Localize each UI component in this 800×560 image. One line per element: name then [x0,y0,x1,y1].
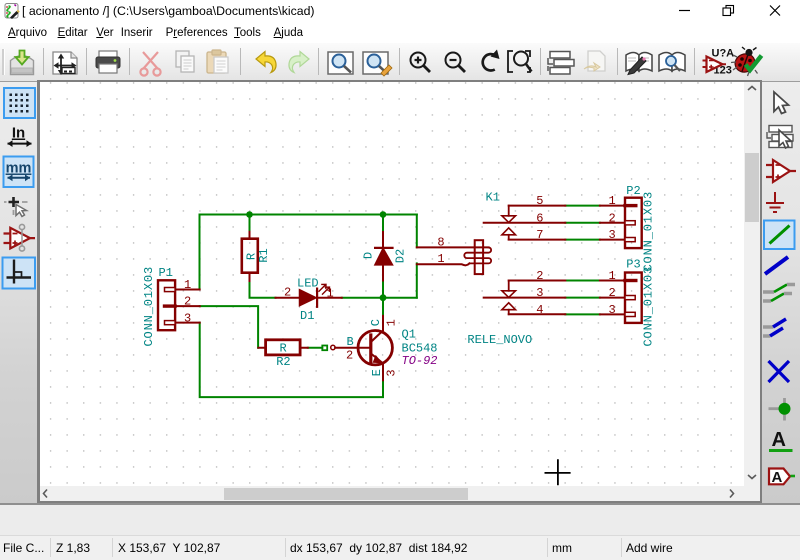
P3 value CONN_01X03 [642,266,656,347]
svg-text:3: 3 [609,228,616,242]
svg-text:R: R [244,253,258,260]
right toolbar [762,82,800,503]
svg-text:TO-92: TO-92 [402,354,438,368]
LED D1 arrows [319,284,330,294]
K1 reference label [486,191,500,205]
P3 reference label [626,258,640,272]
relay K1 pin numbers 8 and 1 [437,235,444,266]
K1 contact group 2: up triangle [502,303,516,315]
frame + canvas [37,80,762,503]
K1 contact group 1: up triangle [502,228,516,240]
svg-text:CONN_01X03: CONN_01X03 [142,266,156,347]
svg-text:P3: P3 [626,258,640,272]
wire top rail [200,214,417,216]
connector P1 body [158,280,175,330]
print icon [96,51,120,73]
svg-text:1: 1 [385,319,399,326]
connector P3 body [625,273,642,323]
menu bar [0,22,800,43]
svg-text:U?A: U?A [712,48,735,60]
svg-text:C: C [369,319,383,326]
wire K1 pin7 to P2 pin3 [565,239,600,241]
undo icon [256,52,276,73]
relay K1 coil winding [464,247,491,263]
place bus tool [765,257,788,274]
K1 contact group 1: pin 6 common line [484,222,566,224]
LED D1 body [300,289,318,307]
svg-text:mm: mm [6,161,32,177]
cut icon (disabled) [140,52,160,76]
P1 reference label [159,266,173,280]
redo icon (disabled) [289,52,309,73]
wire riser to relay pin 1 [416,263,418,297]
Q1 value BC548 [402,341,438,355]
svg-text:2: 2 [609,211,616,225]
P1 pin 3 [165,321,200,325]
P3 pin 3 [600,312,635,316]
library browser icon [659,53,685,72]
wire P1 pin2 to R2 [200,306,258,348]
K1 contact group 1: down triangle [502,216,516,223]
P2 pin 1 [600,205,636,207]
D2 value label [362,252,376,259]
K1 contact group 2: pin 4 line [509,313,566,315]
K1 group 1 pin numbers 5 6 7 [536,194,543,242]
transistor Q1 body [358,331,392,365]
library editor icon [626,53,652,75]
wire K1 pin6 to P2 pin2 [565,222,600,224]
wire K1 pin2 to P3 pin1 [565,280,600,282]
diode D2 body [375,232,393,281]
junction at D2 bottom node [380,294,387,301]
svg-text:3: 3 [184,312,191,326]
svg-text:1: 1 [609,194,616,208]
wire D2 bottom stub [382,281,384,298]
annotate icon [703,48,735,77]
svg-text:5: 5 [536,194,543,208]
svg-text:6: 6 [536,211,543,225]
find icon [328,52,353,74]
P2 pin numbers [609,194,616,242]
place power port tool (ground) [766,192,784,212]
select cursor tool [774,92,789,114]
K1 contact group 2: down triangle [502,291,516,298]
svg-text:B: B [347,335,354,349]
P3 pin numbers [609,269,616,317]
wire P1 pin3 bottom rail to Q1 emitter [200,323,383,398]
leave sheet icon (disabled) [584,51,605,71]
mouse crosshair cursor [545,460,569,484]
svg-text:8: 8 [437,235,444,249]
ERC ladybug icon [731,47,762,76]
wire to bus entry tool [763,285,795,302]
svg-text:In: In [12,125,25,142]
Q1 collector [372,316,383,341]
highlight net tool [767,126,793,149]
K1 contact group 2: pin 2 line [509,281,566,291]
K1 group 2 pin numbers 2 3 4 [536,269,543,317]
svg-text:4: 4 [536,303,543,317]
svg-text:K1: K1 [486,191,500,205]
P2 value CONN_01X03 [642,191,656,272]
wire dangling end square at R2 output [308,346,327,351]
P2 pin 2 [600,221,635,225]
svg-text:CONN_01X03: CONN_01X03 [642,266,656,347]
save icon [11,51,34,75]
wire R1 bottom to LED anode [250,281,276,298]
svg-text:1: 1 [609,269,616,283]
title bar [0,0,800,22]
svg-text:2: 2 [184,294,191,308]
Q1 base pin with open circle [331,345,370,349]
svg-text:D: D [362,252,376,259]
P2 reference label [626,184,640,198]
junction at D2 top [380,211,387,218]
wire K1 pin5 to P2 pin1 [565,205,600,207]
bus to bus entry tool [763,319,786,336]
K1 contact group 1: pin 5 line [509,206,566,216]
window buttons [670,0,800,22]
resistor R1 [242,232,258,281]
label tool [769,429,793,451]
scrollbars [744,82,760,486]
copy icon (disabled) [176,51,194,72]
svg-text:1: 1 [184,278,191,292]
K1 contact group 1: pin 7 line [509,239,566,241]
zoom in icon [411,53,431,73]
Q1 reference label [402,328,416,342]
wire LED cathode to node [342,297,417,299]
place component tool (op-amp) [766,160,796,182]
svg-text:1: 1 [327,287,334,301]
Q1 pin name E and number 3 [370,369,399,377]
connector P2 body [625,198,642,248]
Q1 emitter with arrow [372,354,383,380]
svg-text:7: 7 [536,228,543,242]
junction at R1 top [246,211,253,218]
K1 value RELE_NOVO [467,333,532,347]
svg-text:2: 2 [609,286,616,300]
junction tool [769,398,791,421]
R2 reference label [276,355,290,369]
svg-text:LED: LED [297,276,319,290]
inches unit button [8,125,32,148]
hidden pins toggle (op-amp) [4,224,36,251]
toolbar [0,43,800,82]
svg-text:3: 3 [609,303,616,317]
place wire tool (selected) [764,221,795,250]
zoom fit icon [508,51,532,72]
D2 reference label [394,249,408,263]
R2 value label [279,342,286,356]
D1 label [300,309,314,323]
P1 pin numbers [184,278,191,326]
Q1 pin name C and number 1 [369,319,399,326]
P2 pin 3 [600,238,635,242]
wire D2 top stub [382,215,384,233]
cursor shape toggle [4,197,28,217]
svg-text:R2: R2 [276,355,290,369]
redraw view icon [483,50,500,71]
wire right drop to relay pin 8 [416,215,418,248]
svg-text:D1: D1 [300,309,314,323]
mm unit button (selected) [4,157,34,188]
svg-text:D2: D2 [394,249,408,263]
LED D1 pins [276,297,342,299]
wire P1 pin1 riser [199,215,201,290]
P1 pin 1 [165,288,200,292]
svg-text:Q1: Q1 [402,328,416,342]
find and replace icon [363,52,392,76]
svg-text:E: E [370,369,384,376]
svg-text:RELE_NOVO: RELE_NOVO [467,333,532,347]
K1 contact group 2: pin 3 common line [484,297,566,299]
relay K1 coil core [475,240,483,274]
svg-text:P2: P2 [626,184,640,198]
P1 value CONN_01X03 [142,266,156,347]
status bar [0,503,800,536]
svg-text:CONN_01X03: CONN_01X03 [642,191,656,272]
svg-text:R1: R1 [257,248,271,262]
svg-text:R: R [279,342,286,356]
R1 value label [244,253,258,260]
LED D1 pin numbers [284,286,334,301]
wire K1 pin4 to P3 pin3 [565,313,600,315]
svg-text:P1: P1 [159,266,173,280]
wire K1 pin3 to P3 pin2 [565,297,600,299]
global label tool [769,469,795,487]
svg-text:1: 1 [437,252,444,266]
svg-text:2: 2 [284,286,291,300]
wire R1 top stub [249,215,251,232]
grid toggle button (selected) [4,88,35,118]
svg-text:3: 3 [536,286,543,300]
paste icon (disabled) [207,50,228,73]
no connect tool [769,361,790,382]
relay K1 pin 8 line [417,246,489,248]
resistor R2 [258,340,308,355]
svg-text:2: 2 [346,348,353,362]
Q1 pin name B and number 2 [346,335,354,363]
svg-text:A: A [772,469,783,486]
svg-text:2: 2 [536,269,543,283]
wire Q1 collector stub [382,298,384,316]
P3 pin 1 [600,280,636,282]
svg-text:A: A [772,429,786,451]
hierarchy navigator icon [548,52,574,75]
left toolbar [0,82,37,503]
page settings icon [53,52,77,75]
LED label [297,276,319,290]
wire orientation button (selected) [3,258,36,289]
R1 reference label [257,248,271,262]
Q1 footprint TO-92 [402,354,438,368]
P1 pin 2 [165,304,200,307]
zoom out icon [446,53,466,73]
relay K1 pin 1 line [417,263,470,265]
P3 pin 2 [600,296,635,300]
svg-text:3: 3 [385,369,399,376]
